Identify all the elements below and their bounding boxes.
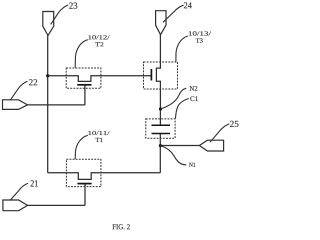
leader line for T1 label <box>75 135 88 159</box>
transistor T2 (dashed box, gate bar) <box>66 68 101 88</box>
label 10/13/ for T3 <box>189 31 211 35</box>
figure caption FIG. 2 <box>112 224 129 229</box>
wire: node N1 vertical drop to T1 drain run <box>159 146 161 173</box>
capacitor C1 (dashed box, two plates) <box>146 119 175 138</box>
wire: T2 gate lead <box>84 85 86 105</box>
leader line for 24 <box>163 5 184 22</box>
label 23 <box>69 3 77 9</box>
label 10/12/ for T2 <box>88 35 109 39</box>
label 21 <box>31 180 38 186</box>
label T1 <box>96 138 103 142</box>
terminal 25 flag <box>199 140 223 151</box>
label T2 <box>95 42 103 46</box>
terminal 21 flag <box>3 200 28 211</box>
wire: terminal 22 to T2 gate lead <box>28 104 85 106</box>
label T3 <box>196 38 203 42</box>
wire: terminal 21 to T1 gate lead <box>28 204 86 206</box>
label capacitor C1 <box>190 96 198 101</box>
label 10/11/ for T1 <box>88 131 109 135</box>
terminal 22 flag <box>3 100 28 110</box>
leader line for T3 label <box>176 36 188 62</box>
wire: T1 source-drain run through channel jog to below node N1 <box>48 173 161 180</box>
label 22 <box>29 79 37 85</box>
leader line for N2 <box>161 88 187 109</box>
junction dot on net 23 at T2 source <box>46 74 49 77</box>
wire: terminal 24 down through T3 channel jog to capacitor C1 top plate <box>156 35 160 126</box>
leader line for 21 <box>10 183 28 200</box>
transistor T1 (dashed box, gate bar) <box>66 159 101 186</box>
node N1 junction dot <box>159 144 162 147</box>
leader line for T2 label <box>75 40 88 68</box>
label 24 <box>184 2 192 8</box>
leader line for C1 <box>176 99 189 119</box>
wire: vertical net from terminal 23 down to T1 source line <box>47 35 49 173</box>
transistor T3 (dashed box, gate bar) <box>144 62 178 89</box>
leader line for N1 <box>160 146 186 165</box>
terminal 24 flag <box>156 11 166 35</box>
label node N2 <box>190 86 198 91</box>
wire: node N1 to terminal 25 <box>160 145 199 147</box>
label 25 <box>230 121 239 127</box>
leader line for 22 <box>10 81 27 100</box>
wire: T1 gate lead <box>84 184 86 206</box>
wire: T2 source-drain run from junction on net 23 to gate of T3 <box>48 76 152 82</box>
terminal 23 flag <box>43 12 54 36</box>
leader line for 23 <box>51 5 68 25</box>
leader line for 25 <box>210 124 229 142</box>
node N2 junction dot <box>159 107 162 110</box>
wire: C1 bottom plate to node N1 <box>159 134 161 146</box>
label node N1 <box>189 163 195 167</box>
